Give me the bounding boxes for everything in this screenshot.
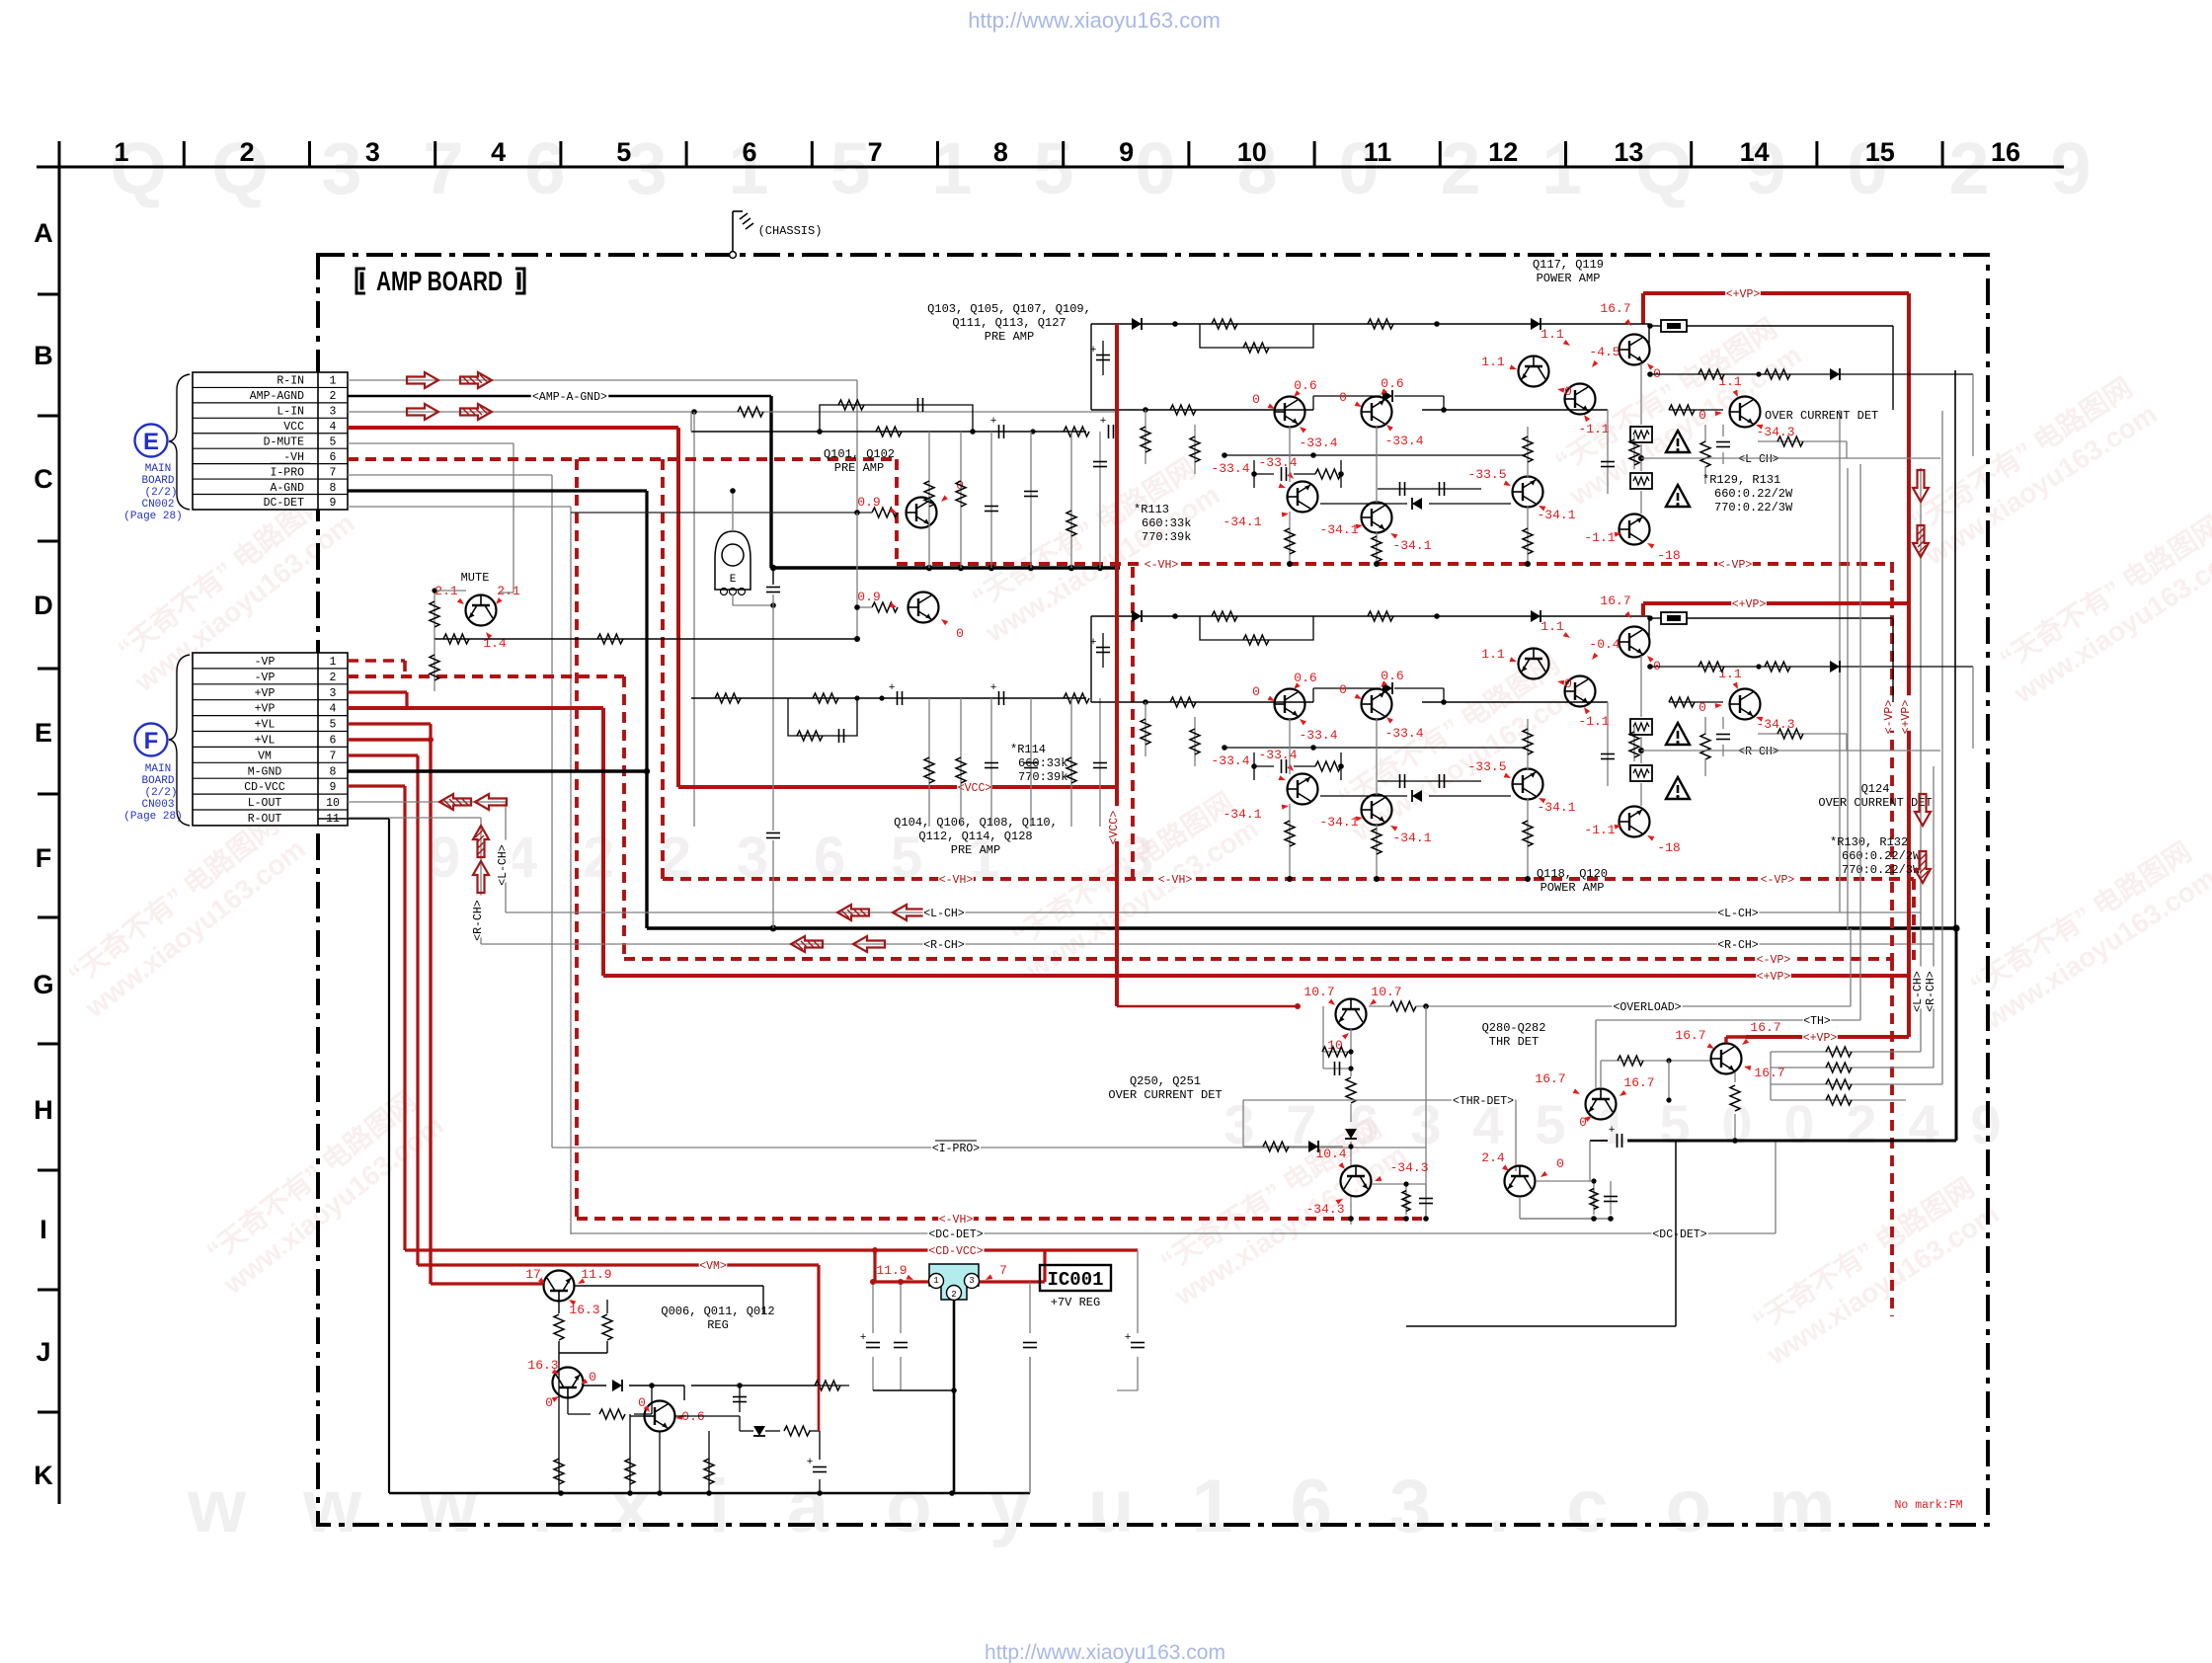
resistor PA oc emitter	[1758, 729, 1847, 751]
svg-text:<THR-DET>: <THR-DET>	[1453, 1095, 1514, 1108]
svg-text:5: 5	[330, 436, 337, 448]
svg-text:<-VH>: <-VH>	[939, 1214, 974, 1227]
node -VH label lower-left	[938, 872, 974, 886]
svg-text:6: 6	[742, 137, 756, 167]
svg-text:<R-CH>: <R-CH>	[1925, 971, 1937, 1012]
svg-text:8: 8	[330, 482, 337, 495]
svg-text:-33.4: -33.4	[1384, 726, 1423, 741]
svg-text:G: G	[33, 970, 53, 999]
svg-text:5: 5	[616, 137, 631, 167]
wire +VP red run	[603, 974, 1909, 978]
label Q101 group	[824, 447, 895, 475]
wire L-IN net	[348, 409, 1117, 827]
transistor Q101	[907, 498, 937, 528]
connector F circle label	[123, 724, 182, 824]
diode PA d1	[1132, 610, 1142, 622]
arrow PA lower down open	[1915, 794, 1931, 826]
wire preamp top chain	[691, 412, 1086, 432]
svg-text:0: 0	[1556, 1156, 1564, 1171]
node -VH label mid	[1144, 557, 1179, 571]
svg-text:+: +	[1100, 416, 1107, 428]
svg-text:F: F	[144, 728, 159, 754]
red values Q282	[1481, 1150, 1564, 1177]
heatsink resistor PA h2	[1630, 765, 1652, 781]
svg-text:-34.1: -34.1	[1392, 538, 1431, 553]
svg-text:3: 3	[365, 137, 380, 167]
arrow R-CH open	[853, 936, 885, 952]
wire VCC red riser	[1115, 324, 1119, 1006]
wire +VP header upper	[1643, 293, 1909, 324]
svg-text:0.9: 0.9	[857, 495, 880, 510]
resistor Q251 base r	[1263, 1142, 1289, 1151]
arrow L-CH hatched	[837, 905, 869, 920]
wire L-OUT net	[348, 802, 506, 912]
node VM label	[699, 1258, 728, 1272]
capacitor coupling c2	[1108, 425, 1110, 438]
node MUTE join	[854, 636, 860, 642]
wire IC001 cap bus	[873, 1387, 957, 1393]
svg-text:DC-DET: DC-DET	[264, 497, 305, 510]
wire -VH dashed lower run	[663, 879, 1914, 960]
label R114 value	[1010, 743, 1067, 784]
svg-text:-VP: -VP	[255, 672, 276, 684]
node L CH label	[1738, 451, 1780, 465]
capacitor Q250 fb	[1323, 1049, 1354, 1075]
resistor ladder right	[1771, 1047, 1942, 1105]
wire PA mid join	[1222, 452, 1526, 458]
wire OVERLOAD run	[1117, 928, 1851, 1006]
svg-text:<CD-VCC>: <CD-VCC>	[928, 1245, 983, 1258]
transistor Q012	[645, 1401, 675, 1432]
svg-text:CN003: CN003	[141, 799, 174, 811]
transistor PA Q-top	[1619, 627, 1650, 658]
wire M-GND net	[348, 768, 650, 928]
wire Q006 net	[431, 1284, 763, 1313]
node +VP THR label	[1802, 1030, 1838, 1044]
svg-text:I: I	[39, 1215, 47, 1244]
svg-text:1.1: 1.1	[1540, 327, 1564, 342]
red values PA lower row	[1211, 748, 1575, 845]
wire +VP THR feed	[1726, 1037, 1746, 1043]
svg-text:+: +	[1090, 637, 1097, 649]
svg-text:16.7: 16.7	[1750, 1020, 1780, 1035]
svg-text:J: J	[36, 1337, 50, 1367]
resistor PA bias v	[1700, 425, 1710, 484]
svg-text:Q103, Q105, Q107, Q109,: Q103, Q105, Q107, Q109,	[927, 302, 1091, 316]
resistor PA rgrid1	[1141, 702, 1150, 756]
connector E brace	[169, 374, 190, 510]
svg-text:4: 4	[330, 703, 337, 716]
wire D-MUTE net	[348, 443, 513, 593]
diode PA d3	[1382, 682, 1392, 694]
node -VP label mid	[1717, 557, 1753, 571]
svg-text:15: 15	[1865, 137, 1895, 167]
resistor Q011 fb	[568, 1386, 652, 1419]
transistor Q251	[1341, 1166, 1372, 1197]
node +VP vertical label	[1902, 695, 1916, 731]
diode Q250 d	[1345, 1129, 1357, 1165]
svg-text:2: 2	[951, 1290, 956, 1300]
resistor Q006 c	[559, 1300, 612, 1353]
capacitor PA cv	[1601, 410, 1615, 494]
svg-text:11.9: 11.9	[876, 1263, 907, 1278]
wire Q282 out	[1520, 1178, 1618, 1221]
svg-text:1.1: 1.1	[1481, 355, 1505, 369]
svg-text:-33.5: -33.5	[1467, 467, 1506, 482]
transistor Q102	[908, 593, 939, 623]
svg-text:-18: -18	[1657, 840, 1680, 855]
ruler left ticks	[38, 294, 59, 1412]
svg-text:(Page 28): (Page 28)	[123, 811, 182, 823]
resistor Q006 e	[554, 1314, 564, 1365]
svg-text:+VP: +VP	[255, 687, 276, 700]
svg-text:-34.3: -34.3	[1305, 1202, 1344, 1217]
svg-text:-33.4: -33.4	[1299, 728, 1337, 743]
resistor preamp r2	[1064, 427, 1089, 436]
svg-text:H: H	[34, 1095, 53, 1125]
transistor PA Q-low-left	[1288, 774, 1318, 805]
svg-text:OVER CURRENT DET: OVER CURRENT DET	[1765, 409, 1878, 423]
node -VH label lower	[1157, 872, 1193, 886]
svg-text:14: 14	[1740, 137, 1770, 167]
svg-text:<R CH>: <R CH>	[1738, 746, 1779, 758]
svg-text:660:0.22/2W: 660:0.22/2W	[1842, 849, 1921, 863]
svg-text:0.9: 0.9	[857, 590, 880, 604]
resistor-cap feedback pair	[817, 398, 976, 436]
zener Q012	[740, 1426, 780, 1436]
watermark ghost digits top	[110, 127, 2091, 209]
wire I-PRO run	[552, 1147, 1426, 1148]
node R CH label	[1738, 744, 1780, 757]
resistor Q012 r2	[784, 1386, 820, 1436]
resistor Q250 out	[1295, 1001, 1429, 1011]
svg-text:M-GND: M-GND	[248, 765, 282, 778]
node DC-DET label right	[1651, 1227, 1707, 1240]
node OVERLOAD label	[1612, 999, 1682, 1013]
svg-text:*R130, R132: *R130, R132	[1830, 835, 1908, 849]
arrow L-OUT open	[475, 794, 507, 810]
resistor REG gnd2	[625, 1431, 635, 1493]
wire right R-CH riser	[1933, 766, 1935, 1068]
warning triangle PA w1	[1666, 431, 1690, 452]
red values Q250	[1303, 985, 1401, 1053]
capacitor Q012 c1	[733, 1383, 747, 1412]
svg-text:-34.3: -34.3	[1389, 1160, 1428, 1175]
svg-text:C: C	[34, 464, 53, 494]
fusible resistor PA	[1661, 612, 1687, 624]
svg-text:REG: REG	[707, 1318, 729, 1332]
transistor PA Q-oc	[1730, 689, 1761, 720]
resistor lower r2	[1064, 693, 1089, 703]
svg-text:+: +	[807, 1457, 814, 1468]
svg-text:5: 5	[330, 719, 337, 732]
svg-text:9: 9	[330, 781, 337, 794]
svg-text:-33.4: -33.4	[1384, 434, 1423, 448]
red values Q011	[527, 1358, 596, 1410]
svg-text:0: 0	[1783, 1093, 1814, 1155]
svg-text:<R-CH>: <R-CH>	[923, 939, 965, 952]
transistor PA Q-low-right	[1513, 477, 1543, 508]
wire VM run	[418, 1265, 819, 1386]
svg-text:7: 7	[330, 466, 337, 479]
arrow PA lower down hatched	[1915, 851, 1931, 883]
svg-text:-33.4: -33.4	[1211, 753, 1249, 768]
red values PA input pair	[1252, 376, 1424, 450]
svg-text:16.7: 16.7	[1675, 1028, 1705, 1043]
red value Q102	[857, 590, 964, 641]
transistor PA Q-in-right	[1362, 397, 1392, 428]
node +VP label upper	[1725, 286, 1761, 300]
svg-text:I-PRO: I-PRO	[270, 466, 304, 479]
svg-text:(2/2): (2/2)	[144, 787, 177, 799]
svg-text:11: 11	[1364, 137, 1392, 167]
resistor REG gnd3	[704, 1431, 714, 1493]
svg-text:-1.1: -1.1	[1578, 714, 1609, 729]
heatsink resistor PA h1	[1630, 719, 1652, 735]
resistor Q280-Q281 link	[1601, 1056, 1711, 1103]
red values PA oc	[1698, 667, 1794, 732]
red values IC001	[876, 1263, 1007, 1280]
svg-text:-4.5: -4.5	[1589, 345, 1619, 359]
capacitor THR black cap	[1590, 1125, 1622, 1181]
wire right gray riser c	[1941, 411, 1943, 1084]
node THR-DET label	[1452, 1093, 1515, 1107]
transistor PA Q-in-left	[1275, 397, 1305, 428]
wire PA top chain	[1091, 613, 1649, 702]
svg-text:7: 7	[330, 750, 337, 762]
svg-text:D: D	[34, 591, 53, 620]
svg-text:-34.1: -34.1	[1223, 807, 1261, 822]
wire REG cap gnd	[819, 1479, 821, 1493]
svg-text:0: 0	[956, 626, 964, 641]
svg-text:(CHASSIS): (CHASSIS)	[758, 224, 823, 238]
wire right +VP red riser	[1907, 293, 1911, 1037]
red values PA input pair	[1252, 669, 1424, 743]
wire PA second chain	[1091, 699, 1608, 705]
warning triangle PA w2	[1666, 777, 1690, 799]
resistor PA vb4	[1523, 719, 1533, 882]
wire Q012 base link	[630, 1386, 684, 1493]
node -VP label	[1756, 952, 1791, 966]
svg-text:-34.1: -34.1	[1319, 815, 1358, 830]
node L-CH vertical label	[499, 840, 513, 883]
svg-text:0: 0	[1721, 1093, 1752, 1155]
wire A-GND net	[348, 491, 647, 771]
wire PA fusible link	[1647, 323, 1893, 410]
svg-text:A-GND: A-GND	[270, 482, 304, 495]
resistor PA vb2	[1285, 804, 1295, 882]
resistor PA r1	[1212, 611, 1237, 621]
label Q118 Q120 POWER AMP	[1537, 867, 1608, 895]
label R113 value	[1134, 503, 1191, 544]
wire L CH out	[1641, 457, 1940, 459]
svg-text:Q118, Q120: Q118, Q120	[1537, 867, 1608, 881]
svg-text:*R114: *R114	[1010, 743, 1046, 756]
svg-text:<VCC>: <VCC>	[958, 782, 992, 795]
svg-text:PRE AMP: PRE AMP	[951, 843, 1000, 857]
node L-CH label mid	[923, 906, 966, 919]
svg-text:<DC-DET>: <DC-DET>	[928, 1228, 983, 1241]
svg-text:-33.5: -33.5	[1467, 759, 1506, 774]
svg-text:8: 8	[993, 137, 1008, 167]
resistor PA oc base	[1669, 697, 1723, 707]
capacitor IC001 c3	[1023, 1282, 1037, 1493]
svg-text:<TH>: <TH>	[1803, 1015, 1831, 1028]
capacitor coupling c1	[990, 416, 1036, 438]
label Q124 OVER CURRENT DET	[1818, 782, 1932, 810]
svg-text:+VL: +VL	[255, 719, 276, 732]
transistor PA Q-mid	[1362, 503, 1392, 533]
svg-text:8: 8	[330, 765, 337, 778]
svg-text:+: +	[990, 416, 997, 428]
svg-text:VCC: VCC	[283, 421, 304, 434]
resistor PA r1	[1212, 319, 1237, 329]
capacitor PA cmid	[1090, 341, 1110, 375]
diode PA d4	[1320, 790, 1511, 802]
diode Q251 base d	[1308, 1141, 1318, 1152]
node DC-DET label mid	[927, 1227, 984, 1240]
svg-text:660:0.22/2W: 660:0.22/2W	[1714, 487, 1793, 501]
heatsink resistor PA h1	[1630, 427, 1652, 442]
IC001 regulator body	[929, 1264, 980, 1301]
svg-text:L-OUT: L-OUT	[248, 797, 282, 810]
svg-text:-1.1: -1.1	[1584, 823, 1615, 837]
resistor PA vb3	[1372, 427, 1382, 567]
svg-text:3: 3	[330, 687, 337, 700]
wire R-OUT net	[348, 818, 481, 944]
chassis ground	[730, 211, 823, 258]
svg-text:<DC-DET>: <DC-DET>	[1652, 1228, 1706, 1241]
wire TH run	[1596, 464, 1860, 1088]
capacitor PA cv	[1601, 702, 1615, 786]
svg-text:Q117, Q119: Q117, Q119	[1533, 258, 1604, 272]
wire CD-VCC net red	[348, 786, 405, 1250]
wire DC-DET net	[348, 507, 571, 1234]
svg-text:(Page 28): (Page 28)	[123, 511, 182, 522]
svg-text:Q101, Q102: Q101, Q102	[824, 447, 895, 461]
node R-CH label right	[1717, 937, 1760, 951]
capacitor PA c2	[1378, 774, 1481, 788]
wire right gray riser a	[1839, 410, 1841, 912]
svg-text:<I-PRO>: <I-PRO>	[932, 1143, 980, 1155]
wire THR-DET tap	[1243, 1100, 1343, 1147]
svg-text:-33.4: -33.4	[1211, 461, 1249, 476]
transistor PA Q-low-right	[1513, 769, 1543, 800]
node -VH label bottom	[938, 1212, 974, 1226]
capacitor lower c1	[854, 682, 902, 705]
wire right black riser	[1954, 370, 1956, 928]
svg-text:770:39k: 770:39k	[1018, 770, 1067, 784]
svg-text:Q112, Q114, Q128: Q112, Q114, Q128	[918, 830, 1032, 843]
transistor PA Q-oc	[1730, 397, 1761, 428]
capacitor PA c2	[1378, 482, 1481, 496]
svg-text:10.4: 10.4	[1315, 1147, 1346, 1161]
wire VCC net red	[348, 428, 1117, 787]
svg-text:16: 16	[1991, 137, 2020, 167]
transistor Q250	[1336, 999, 1367, 1030]
svg-text:-33.4: -33.4	[1258, 455, 1297, 470]
wire preamp lower verticals	[924, 698, 1107, 827]
node CD-VCC label	[927, 1243, 984, 1257]
svg-text:0.6: 0.6	[1294, 378, 1316, 393]
svg-text:<-VH>: <-VH>	[1145, 559, 1179, 572]
svg-text:CD-VCC: CD-VCC	[244, 781, 285, 794]
resistor PA vb1	[1289, 427, 1291, 482]
wire MUTE net	[432, 588, 857, 639]
resistor PA oc emitter	[1758, 436, 1847, 458]
wire I-PRO net	[348, 475, 552, 1148]
svg-text:OVER CURRENT DET: OVER CURRENT DET	[1818, 796, 1932, 810]
resistor PA rgrid1	[1141, 410, 1150, 464]
resistor MUTE h2	[597, 634, 623, 644]
wire THR-DET run	[1243, 1100, 1516, 1171]
svg-text:+: +	[889, 682, 896, 694]
capacitor IC001 c4	[1117, 1250, 1145, 1390]
transistor PA Q-driver1	[1519, 649, 1549, 679]
svg-text:<VM>: <VM>	[699, 1260, 727, 1273]
svg-text:13: 13	[1614, 137, 1643, 167]
svg-text:+7V REG: +7V REG	[1051, 1296, 1100, 1309]
svg-text:AMP-AGND: AMP-AGND	[250, 390, 304, 403]
wire IC001 pin1 feed	[872, 1247, 928, 1282]
label Q250 Q251 OVER CURRENT DET	[1108, 1074, 1222, 1102]
svg-text:E: E	[143, 429, 159, 455]
svg-text:0.6: 0.6	[1381, 669, 1403, 683]
resistor PA oc base	[1669, 405, 1723, 415]
svg-text:BOARD: BOARD	[141, 475, 174, 487]
svg-text:D-MUTE: D-MUTE	[264, 436, 305, 448]
wire -VP dashed net	[348, 676, 624, 959]
svg-text:<+VP>: <+VP>	[1757, 971, 1791, 984]
svg-text:Q104, Q106, Q108, Q110,: Q104, Q106, Q108, Q110,	[894, 816, 1058, 830]
svg-text:E: E	[35, 718, 52, 748]
wire Q250 verticals	[1323, 1006, 1426, 1219]
wire PA top chain	[1091, 321, 1649, 410]
wire +VP net red	[348, 708, 603, 976]
wire right L-CH riser	[1920, 468, 1922, 1052]
svg-text:<+VP>: <+VP>	[1732, 598, 1767, 611]
red value Q101	[857, 478, 964, 513]
svg-text:9: 9	[1119, 137, 1134, 167]
node L-CH vertical label right	[1914, 967, 1928, 1009]
diode PA d4	[1320, 498, 1511, 510]
wire PA d3 link	[1313, 688, 1447, 705]
node +VP label	[1756, 969, 1791, 983]
svg-text:-34.1: -34.1	[1223, 515, 1261, 529]
resistor PA r2	[1200, 324, 1313, 353]
svg-text:5: 5	[1535, 1093, 1565, 1155]
svg-text:12: 12	[1488, 137, 1518, 167]
wire +VP header lower	[1643, 603, 1909, 616]
label R130 R132	[1830, 835, 1921, 877]
resistor PA top out chain	[1647, 369, 1973, 456]
diode Q011	[584, 1380, 655, 1391]
transistor PA Q-in-left	[1275, 689, 1305, 720]
svg-text:17: 17	[525, 1267, 541, 1282]
svg-text:R-IN: R-IN	[276, 375, 304, 388]
svg-text:E: E	[730, 574, 737, 586]
svg-text:A: A	[34, 218, 53, 248]
wire right dashed -VP riser	[1890, 960, 1894, 1316]
transistor Q281	[1711, 1044, 1742, 1074]
red values Q006	[525, 1267, 611, 1317]
resistor preamp v2	[956, 432, 966, 568]
diode PA d2	[1531, 610, 1540, 622]
svg-text:MUTE: MUTE	[461, 571, 490, 585]
svg-text:Q250, Q251: Q250, Q251	[1130, 1074, 1201, 1088]
svg-text:PRE AMP: PRE AMP	[985, 330, 1034, 344]
diode PA out	[1830, 368, 1840, 380]
